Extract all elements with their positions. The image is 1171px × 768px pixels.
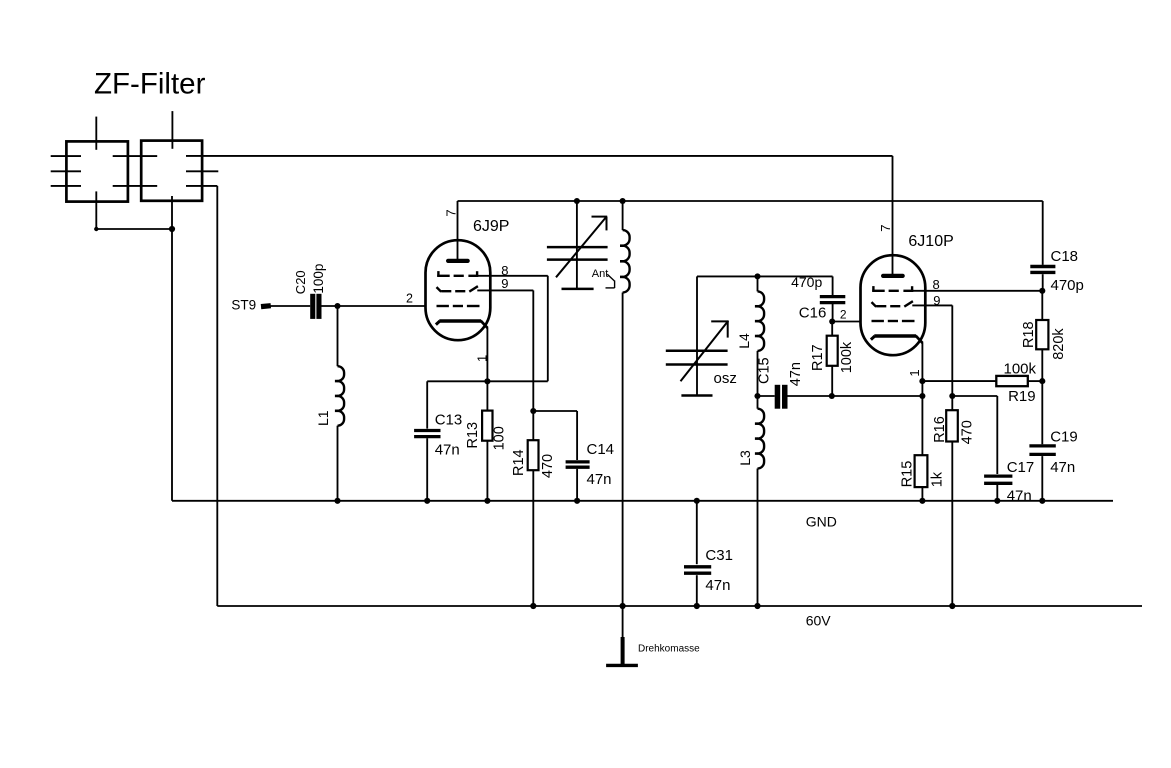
svg-text:9: 9 xyxy=(933,293,940,308)
svg-text:C17: C17 xyxy=(1007,459,1035,476)
svg-text:C13: C13 xyxy=(435,412,463,429)
svg-text:470p: 470p xyxy=(1051,277,1084,294)
svg-text:2: 2 xyxy=(840,308,847,322)
svg-text:1: 1 xyxy=(474,355,489,362)
svg-text:Ant: Ant xyxy=(592,268,609,280)
svg-text:ST9: ST9 xyxy=(231,298,256,313)
svg-text:C18: C18 xyxy=(1051,248,1079,265)
svg-text:47n: 47n xyxy=(435,442,460,459)
svg-text:GND: GND xyxy=(806,513,837,529)
svg-text:L3: L3 xyxy=(737,450,753,466)
svg-text:470: 470 xyxy=(540,454,556,478)
svg-text:820k: 820k xyxy=(1051,328,1067,360)
svg-text:R14: R14 xyxy=(511,449,527,476)
svg-text:6J10P: 6J10P xyxy=(908,233,953,250)
svg-text:47n: 47n xyxy=(705,577,730,594)
svg-text:ZF-Filter: ZF-Filter xyxy=(94,68,206,101)
svg-text:47n: 47n xyxy=(1050,459,1075,476)
svg-text:1: 1 xyxy=(907,369,922,376)
svg-text:L4: L4 xyxy=(736,333,752,349)
svg-text:osz: osz xyxy=(714,370,737,387)
svg-text:100k: 100k xyxy=(839,341,855,373)
svg-text:470: 470 xyxy=(960,420,976,444)
svg-text:100k: 100k xyxy=(1004,360,1037,377)
svg-text:R16: R16 xyxy=(932,416,948,443)
svg-text:R17: R17 xyxy=(810,344,826,371)
svg-text:60V: 60V xyxy=(806,612,832,628)
svg-text:C20: C20 xyxy=(293,270,308,294)
svg-text:C16: C16 xyxy=(799,305,827,322)
svg-text:2: 2 xyxy=(406,292,413,306)
svg-text:C31: C31 xyxy=(705,547,733,564)
svg-text:R13: R13 xyxy=(465,422,481,449)
svg-text:47n: 47n xyxy=(788,362,804,386)
svg-text:C14: C14 xyxy=(587,441,615,458)
svg-text:100p: 100p xyxy=(311,264,326,294)
svg-text:6J9P: 6J9P xyxy=(473,218,509,235)
svg-text:Drehkomasse: Drehkomasse xyxy=(638,644,700,655)
svg-text:R18: R18 xyxy=(1021,321,1037,348)
svg-text:100: 100 xyxy=(492,426,508,450)
svg-text:R19: R19 xyxy=(1008,388,1036,405)
svg-text:47n: 47n xyxy=(587,471,612,488)
svg-text:470p: 470p xyxy=(791,274,822,290)
svg-text:7: 7 xyxy=(878,225,893,232)
svg-text:R15: R15 xyxy=(900,461,916,488)
svg-text:9: 9 xyxy=(501,276,508,291)
svg-text:47n: 47n xyxy=(1007,487,1032,504)
svg-text:C19: C19 xyxy=(1050,429,1078,446)
svg-text:8: 8 xyxy=(933,277,940,292)
svg-text:1k: 1k xyxy=(930,471,946,487)
svg-text:L1: L1 xyxy=(315,410,331,426)
svg-text:C15: C15 xyxy=(756,357,772,384)
svg-text:7: 7 xyxy=(444,209,459,216)
